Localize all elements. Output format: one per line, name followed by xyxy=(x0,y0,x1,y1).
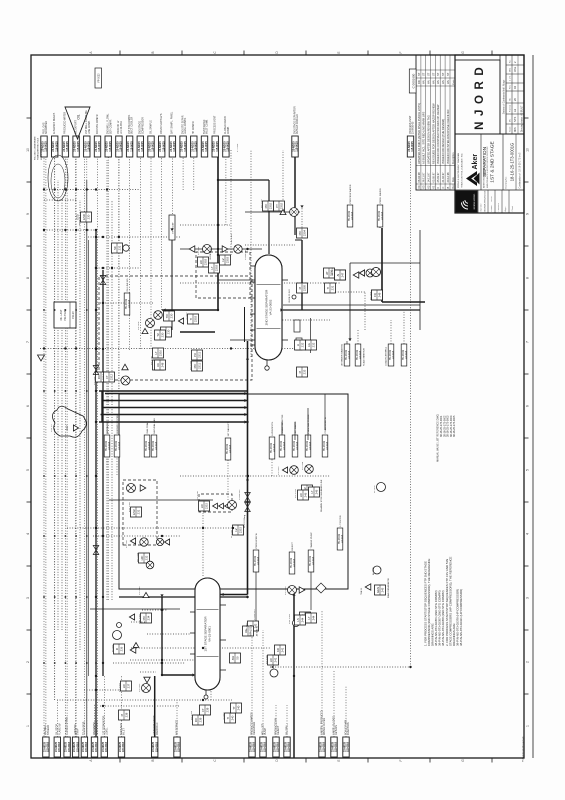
svg-text:10: 10 xyxy=(26,148,30,152)
svg-text:C: C xyxy=(441,187,445,189)
svg-text:ESD 0.1: ESD 0.1 xyxy=(79,216,81,225)
svg-text:115-0018: 115-0018 xyxy=(264,741,267,752)
svg-text:115-0025: 115-0025 xyxy=(152,141,155,152)
svg-text:TT: TT xyxy=(232,706,236,710)
svg-text:115-0018: 115-0018 xyxy=(274,443,276,452)
svg-text:SCALE INHIBITOR: SCALE INHIBITOR xyxy=(281,414,284,433)
svg-text:HV-23049: HV-23049 xyxy=(357,349,359,360)
svg-text:COALESCER W.: COALESCER W. xyxy=(324,416,327,433)
svg-text:GEN: GEN xyxy=(376,587,380,593)
svg-text:SAF. SAMPL. PANEL: SAF. SAMPL. PANEL xyxy=(171,111,174,134)
svg-text:231: 231 xyxy=(137,509,141,514)
svg-text:3: 3 xyxy=(525,597,529,599)
svg-text:HV-23049: HV-23049 xyxy=(291,557,293,568)
svg-text:LIC 2323: LIC 2323 xyxy=(119,682,121,692)
svg-text:TI: TI xyxy=(189,318,193,321)
svg-text:B: B xyxy=(151,51,155,53)
svg-text:PSV 2320: PSV 2320 xyxy=(139,613,141,624)
svg-text:kN: kN xyxy=(510,119,512,122)
svg-text:4: 4 xyxy=(525,533,529,535)
svg-text:ST: ST xyxy=(436,72,440,76)
svg-text:Client:: Client: xyxy=(511,205,514,211)
svg-text:4: 4 xyxy=(26,533,30,535)
svg-text:115-0018: 115-0018 xyxy=(47,741,50,752)
svg-text:LT: LT xyxy=(154,351,158,354)
svg-text:INJECTION: INJECTION xyxy=(347,722,350,735)
svg-text:LS: LS xyxy=(296,618,300,622)
svg-text:ST: ST xyxy=(422,72,426,76)
svg-text:2ND WELL FLOWL.: 2ND WELL FLOWL. xyxy=(108,113,110,134)
svg-text:115-0018: 115-0018 xyxy=(109,441,111,450)
svg-text:2305: 2305 xyxy=(303,284,307,291)
svg-text:SEPARATION: SEPARATION xyxy=(482,146,488,177)
svg-text:XXV 23: XXV 23 xyxy=(51,424,53,432)
svg-text:PIC: PIC xyxy=(193,364,197,369)
svg-text:231: 231 xyxy=(118,245,122,250)
svg-text:LIT FILTER: LIT FILTER xyxy=(340,515,342,527)
svg-text:UPDATED AFTER DESIGN REVIEW T: UPDATED AFTER DESIGN REVIEW TAG xyxy=(427,115,431,164)
svg-text:TEGN: TEGN xyxy=(491,196,493,202)
svg-text:SCALE INHIBITOR: SCALE INHIBITOR xyxy=(363,348,366,366)
svg-text:AI 2330: AI 2330 xyxy=(372,567,375,575)
svg-text:2311: 2311 xyxy=(198,363,202,369)
svg-text:1: 1 xyxy=(525,725,529,727)
svg-text:HV-23049: HV-23049 xyxy=(227,443,229,454)
svg-text:LIC 2315: LIC 2315 xyxy=(197,490,199,500)
svg-text:LV 2315: LV 2315 xyxy=(231,529,233,538)
svg-text:AT: AT xyxy=(325,271,329,275)
svg-text:HV-23049: HV-23049 xyxy=(307,440,309,451)
svg-text:PIC 2311: PIC 2311 xyxy=(190,360,192,370)
svg-text:TI: TI xyxy=(226,717,230,720)
svg-text:ISSUED FOR DESIGN (THE REVIEW: ISSUED FOR DESIGN (THE REVIEW) xyxy=(441,119,445,164)
svg-text:HV-23049: HV-23049 xyxy=(339,533,341,544)
svg-text:MAIN GENERATOR: MAIN GENERATOR xyxy=(387,578,390,598)
svg-text:1ST & 2ND STAGE: 1ST & 2ND STAGE xyxy=(490,141,496,182)
svg-text:FUEL GAS PURGE: FUEL GAS PURGE xyxy=(307,414,310,434)
svg-text:AE MAL 61: AE MAL 61 xyxy=(106,422,109,434)
svg-text:FI: FI xyxy=(115,648,119,651)
svg-text:LEVEL: LEVEL xyxy=(105,727,108,735)
svg-text:AS BUILT INCL. SITE RED-LINE: AS BUILT INCL. SITE RED-LINE MARK UPS xyxy=(422,112,426,164)
svg-text:SUCT. COOLER: SUCT. COOLER xyxy=(132,116,134,134)
svg-text:VA-23-0002: VA-23-0002 xyxy=(269,299,273,315)
svg-text:RE-ISSUED FOR DESIGN AFTER HA: RE-ISSUED FOR DESIGN AFTER HAZOP REVIEW xyxy=(431,103,435,164)
svg-text:2302: 2302 xyxy=(280,202,284,209)
svg-text:SCRUBBER: SCRUBBER xyxy=(46,121,48,134)
svg-text:No.: No. xyxy=(510,59,512,63)
svg-text:FLARE KV: FLARE KV xyxy=(58,723,61,735)
svg-text:115-0018: 115-0018 xyxy=(122,741,125,752)
svg-text:TEST SEPAR.: TEST SEPAR. xyxy=(203,119,206,134)
svg-text:1ST STG COMPR.: 1ST STG COMPR. xyxy=(129,114,131,134)
svg-text:232: 232 xyxy=(145,555,149,560)
svg-text:FP-0023: FP-0023 xyxy=(99,73,101,83)
svg-text:1 of 1: 1 of 1 xyxy=(510,75,512,81)
svg-text:PIC: PIC xyxy=(298,231,302,236)
svg-text:Drawing No.:: Drawing No.: xyxy=(505,175,508,188)
svg-text:HV-23049: HV-23049 xyxy=(146,440,148,451)
svg-text:14.11.97: 14.11.97 xyxy=(427,172,431,182)
svg-text:115-0025: 115-0025 xyxy=(66,141,69,152)
svg-text:115-0018: 115-0018 xyxy=(284,441,286,450)
svg-text:MAL51: MAL51 xyxy=(249,626,253,635)
svg-text:HV-23049: HV-23049 xyxy=(310,555,312,566)
svg-text:240: 240 xyxy=(237,705,241,710)
svg-text:ALTERNAT. INJECT.: ALTERNAT. INJECT. xyxy=(53,112,56,134)
svg-text:PIC: PIC xyxy=(142,616,146,621)
svg-text:HN: HN xyxy=(441,80,445,84)
svg-text:LIC 2310: LIC 2310 xyxy=(151,355,153,365)
svg-text:TI 2325: TI 2325 xyxy=(223,712,225,720)
svg-text:239: 239 xyxy=(206,707,210,712)
svg-text:PI: PI xyxy=(298,286,302,289)
svg-text:FIC 2324: FIC 2324 xyxy=(191,710,193,720)
svg-text:HN: HN xyxy=(446,80,450,84)
svg-text:OUTLET COOLER: OUTLET COOLER xyxy=(297,114,299,134)
svg-text:GAS COAL: GAS COAL xyxy=(146,422,149,434)
svg-text:PIC 2337: PIC 2337 xyxy=(261,198,263,208)
svg-text:115-0018: 115-0018 xyxy=(294,558,296,567)
svg-text:PIG 23: PIG 23 xyxy=(73,311,75,319)
svg-text:115-0018: 115-0018 xyxy=(327,441,329,450)
svg-text:LIC: LIC xyxy=(122,684,126,688)
svg-text:Operator:: Operator: xyxy=(480,203,483,212)
svg-text:115-0018: 115-0018 xyxy=(382,211,384,220)
svg-text:38-P/N-NS-073-02321 (HP COMPR: 38-P/N-NS-073-02321 (HP COMPRESSOR) xyxy=(459,589,463,646)
svg-text:HV-23049: HV-23049 xyxy=(255,555,257,566)
svg-text:LV: LV xyxy=(234,528,238,531)
svg-text:RD: RD xyxy=(417,80,421,84)
svg-text:115-0018: 115-0018 xyxy=(277,741,280,752)
svg-text:2ND STAGE: 2ND STAGE xyxy=(139,121,142,134)
svg-text:HV-23049: HV-23049 xyxy=(403,349,405,360)
svg-text:OIL SAMPLE: OIL SAMPLE xyxy=(149,120,152,134)
svg-text:115-0025: 115-0025 xyxy=(184,141,187,152)
svg-text:115-0018: 115-0018 xyxy=(178,741,181,752)
svg-text:8: 8 xyxy=(525,277,529,279)
svg-text:PROCESS VENT: PROCESS VENT xyxy=(215,115,217,134)
svg-text:FT: FT xyxy=(105,375,109,379)
svg-text:PT: PT xyxy=(275,204,279,208)
svg-text:INLET: INLET xyxy=(123,728,126,735)
svg-text:233: 233 xyxy=(303,369,307,374)
svg-text:HYDROCYCL.: HYDROCYCL. xyxy=(272,421,274,436)
svg-text:115-0018: 115-0018 xyxy=(349,350,351,359)
svg-text:23-0N25-001: 23-0N25-001 xyxy=(41,147,43,160)
svg-text:2302: 2302 xyxy=(269,202,273,209)
svg-text:232: 232 xyxy=(301,342,305,347)
svg-text:PROCESS VENT: PROCESS VENT xyxy=(410,115,412,134)
svg-text:115-0018: 115-0018 xyxy=(335,741,338,752)
svg-text:115-0018: 115-0018 xyxy=(129,299,131,308)
svg-text:FQ 2307: FQ 2307 xyxy=(370,291,372,300)
svg-text:XX: XX xyxy=(156,363,160,367)
svg-text:XV 2317: XV 2317 xyxy=(126,539,128,548)
svg-text:2315: 2315 xyxy=(239,526,243,533)
svg-text:ST: ST xyxy=(417,72,421,76)
svg-text:3: 3 xyxy=(26,597,30,599)
svg-text:2303: 2303 xyxy=(194,315,198,322)
svg-text:115-0025: 115-0025 xyxy=(77,141,80,152)
svg-text:MANIFOLD: MANIFOLD xyxy=(156,722,159,735)
svg-text:115-0025: 115-0025 xyxy=(227,141,230,152)
svg-text:FIC: FIC xyxy=(194,718,198,723)
svg-text:SC: SC xyxy=(113,246,117,250)
svg-text:115-0025: 115-0025 xyxy=(162,141,165,152)
svg-text:ST: ST xyxy=(441,72,445,76)
svg-text:Sh.: Sh. xyxy=(510,97,512,101)
svg-text:115-0025: 115-0025 xyxy=(98,141,101,152)
svg-text:LV1 23-0011: LV1 23-0011 xyxy=(121,120,123,134)
svg-text:OIL LINE 115: OIL LINE 115 xyxy=(127,278,129,292)
svg-text:ST: ST xyxy=(427,72,431,76)
svg-text:2ND STAGE SEPARATOR: 2ND STAGE SEPARATOR xyxy=(293,106,296,134)
svg-text:06.04.98: 06.04.98 xyxy=(417,172,421,183)
svg-text:6: 6 xyxy=(26,405,30,407)
svg-text:230: 230 xyxy=(87,214,91,219)
svg-text:LV1 X.X Barg: LV1 X.X Barg xyxy=(243,514,246,528)
svg-text:2312: 2312 xyxy=(110,373,114,380)
svg-text:XXV: XXV xyxy=(65,425,69,430)
svg-text:PSV 2303: PSV 2303 xyxy=(231,233,233,244)
svg-text:23-0N30-05: 23-0N30-05 xyxy=(413,121,415,134)
svg-text:LV: LV xyxy=(221,258,225,261)
svg-text:115-0025: 115-0025 xyxy=(141,141,144,152)
svg-text:HP COMPR.: HP COMPR. xyxy=(193,120,195,134)
svg-text:OSL: OSL xyxy=(513,66,517,72)
svg-text:PIC: PIC xyxy=(264,204,268,209)
svg-text:ST: ST xyxy=(431,72,435,76)
svg-text:RETURN: RETURN xyxy=(335,725,338,735)
svg-text:FUEL GAS: FUEL GAS xyxy=(42,122,45,134)
svg-text:OPEN PLANT EV'S: OPEN PLANT EV'S xyxy=(160,113,163,134)
svg-text:REJECT: REJECT xyxy=(292,541,294,550)
svg-text:115-0025: 115-0025 xyxy=(296,141,299,152)
svg-text:TRAP: TRAP xyxy=(77,728,80,735)
svg-text:HV-23049: HV-23049 xyxy=(153,440,155,451)
svg-text:HV 2302: HV 2302 xyxy=(138,321,140,330)
svg-text:234: 234 xyxy=(147,615,151,620)
svg-text:115-0018: 115-0018 xyxy=(297,441,299,450)
svg-text:WATER FILTER: WATER FILTER xyxy=(323,718,326,735)
svg-text:26.11.97: 26.11.97 xyxy=(422,172,426,182)
svg-text:115-0025: 115-0025 xyxy=(88,141,91,152)
svg-text:2303: 2303 xyxy=(215,264,219,271)
svg-text:Aker: Aker xyxy=(472,154,479,170)
svg-text:238: 238 xyxy=(125,712,129,717)
svg-text:9: 9 xyxy=(525,213,529,215)
svg-text:HIC: HIC xyxy=(140,556,144,561)
svg-text:244: 244 xyxy=(301,617,305,622)
svg-text:A1: A1 xyxy=(513,108,517,112)
svg-text:2: 2 xyxy=(525,661,529,663)
svg-text:CLOSED DRAIN: CLOSED DRAIN xyxy=(65,717,68,735)
svg-text:E: E xyxy=(337,759,341,761)
svg-text:HN: HN xyxy=(422,80,426,84)
svg-text:E: E xyxy=(337,51,341,53)
svg-text:HV-23049: HV-23049 xyxy=(390,349,392,360)
svg-text:115-0018: 115-0018 xyxy=(85,741,88,752)
svg-text:PRODUCED WATER: PRODUCED WATER xyxy=(64,112,67,134)
svg-text:LIC: LIC xyxy=(269,658,273,662)
svg-text:XV 2322: XV 2322 xyxy=(139,683,141,692)
svg-text:Plotted 06.04.98 tegn/awb: Plotted 06.04.98 tegn/awb xyxy=(521,736,524,762)
svg-text:ST: ST xyxy=(446,72,450,76)
svg-text:236: 236 xyxy=(120,646,124,651)
svg-text:LIC: LIC xyxy=(200,504,204,508)
svg-text:246: 246 xyxy=(304,492,308,497)
svg-text:MIS: MIS xyxy=(513,127,517,132)
svg-text:2ND STG SEPAR.: 2ND STG SEPAR. xyxy=(181,115,184,134)
svg-text:Date: Date xyxy=(452,176,455,182)
svg-text:115-0018: 115-0018 xyxy=(76,741,79,752)
svg-text:COMB.: COMB. xyxy=(228,126,230,134)
svg-text:LIC: LIC xyxy=(199,260,203,264)
svg-text:115-0018: 115-0018 xyxy=(323,741,326,752)
svg-text:7: 7 xyxy=(26,341,30,343)
svg-text:PI: PI xyxy=(298,370,302,373)
svg-text:230: 230 xyxy=(161,332,165,337)
svg-text:NTS: NTS xyxy=(513,117,517,122)
svg-text:Made: Made xyxy=(453,79,455,85)
svg-text:115-0018: 115-0018 xyxy=(342,534,344,543)
svg-text:10: 10 xyxy=(525,148,529,152)
svg-text:PSV 2328: PSV 2328 xyxy=(289,613,291,624)
svg-text:COMPRESSOR: COMPRESSOR xyxy=(142,117,144,134)
svg-text:XV 2304: XV 2304 xyxy=(94,376,96,385)
svg-text:LINE COMB.: LINE COMB. xyxy=(89,120,91,134)
svg-text:230: 230 xyxy=(167,329,171,334)
svg-text:ISSUED FOR INTER-DISCIPLINE CH: ISSUED FOR INTER-DISCIPLINE CHECK IDC xyxy=(446,109,450,164)
svg-text:INLET COMB.: INLET COMB. xyxy=(207,119,209,134)
svg-text:6: 6 xyxy=(525,405,529,407)
svg-text:UPDATED AS BUILT (AFTER FINAL: UPDATED AS BUILT (AFTER FINAL PUNCH LIST… xyxy=(417,103,421,164)
svg-text:OIL LAST: OIL LAST xyxy=(60,309,63,320)
svg-text:AI: AI xyxy=(336,273,340,276)
svg-text:PV 2301: PV 2301 xyxy=(198,246,200,255)
svg-text:XV 2329: XV 2329 xyxy=(285,586,287,595)
svg-text:HV-23049: HV-23049 xyxy=(346,349,348,360)
svg-text:115-0025: 115-0025 xyxy=(195,141,198,152)
svg-text:N J O R D: N J O R D xyxy=(474,66,486,130)
svg-text:2303: 2303 xyxy=(204,258,208,265)
svg-text:115-0025: 115-0025 xyxy=(109,141,112,152)
svg-text:XV 2333: XV 2333 xyxy=(278,466,280,475)
svg-text:Scale: Scale xyxy=(510,126,512,132)
svg-text:20.12.96: 20.12.96 xyxy=(446,172,450,183)
svg-text:STREAM: STREAM xyxy=(47,725,50,735)
svg-text:HV-23049: HV-23049 xyxy=(281,440,283,451)
svg-text:115-0018: 115-0018 xyxy=(258,556,260,565)
svg-text:OIL: OIL xyxy=(76,114,80,119)
svg-text:115-0025: 115-0025 xyxy=(173,141,176,152)
svg-text:TRANSF. PUMP: TRANSF. PUMP xyxy=(310,532,313,549)
svg-text:HN: HN xyxy=(427,80,431,84)
svg-text:50: 50 xyxy=(236,656,240,660)
svg-text:ISSUED FOR CONSTRUCTION KDN: ISSUED FOR CONSTRUCTION KDN OP. REVIEW xyxy=(436,104,440,164)
svg-text:241: 241 xyxy=(274,657,278,662)
svg-text:HV-23049: HV-23049 xyxy=(349,210,351,221)
svg-text:246: 246 xyxy=(315,489,319,494)
svg-text:2304: 2304 xyxy=(303,229,307,236)
svg-text:F: F xyxy=(399,51,403,53)
svg-text:115-0025: 115-0025 xyxy=(130,141,133,152)
svg-text:LG: LG xyxy=(307,343,311,347)
svg-text:PI 2327: PI 2327 xyxy=(246,622,248,630)
svg-text:244: 244 xyxy=(312,615,316,620)
svg-text:HV-23049: HV-23049 xyxy=(126,298,128,309)
svg-text:115-0018: 115-0018 xyxy=(105,741,108,752)
svg-text:25.03.97: 25.03.97 xyxy=(436,172,440,183)
svg-text:241: 241 xyxy=(281,647,285,652)
svg-text:ESD: ESD xyxy=(82,214,86,220)
svg-text:7: 7 xyxy=(525,341,529,343)
svg-text:HV-23049: HV-23049 xyxy=(324,440,326,451)
svg-text:FUL GAS CONDENSATE: FUL GAS CONDENSATE xyxy=(34,136,37,160)
svg-text:PT 2336: PT 2336 xyxy=(237,143,239,152)
svg-text:115-0025: 115-0025 xyxy=(216,141,219,152)
svg-text:JB-PA-23-05: JB-PA-23-05 xyxy=(209,247,212,260)
svg-text:JB-PA-23-043: JB-PA-23-043 xyxy=(288,289,291,303)
svg-text:23-PB-011: 23-PB-011 xyxy=(245,249,247,260)
svg-text:LIC 2326: LIC 2326 xyxy=(266,654,268,664)
svg-text:PROC.W. LV: PROC.W. LV xyxy=(118,120,120,134)
svg-text:REJECT: REJECT xyxy=(277,725,280,735)
svg-text:HV-23049: HV-23049 xyxy=(379,210,381,221)
svg-text:HN: HN xyxy=(436,80,440,84)
svg-text:245: 245 xyxy=(381,587,385,592)
svg-text:Description: Description xyxy=(452,152,455,164)
svg-text:115-0018: 115-0018 xyxy=(156,441,158,450)
svg-text:247: 247 xyxy=(341,272,345,277)
svg-text:TV: TV xyxy=(156,333,160,337)
svg-text:PIPING & INSTRUMENT DIAGRAM: PIPING & INSTRUMENT DIAGRAM xyxy=(457,153,460,188)
svg-text:115-0018: 115-0018 xyxy=(253,741,256,752)
svg-text:JET WATER: JET WATER xyxy=(294,421,297,434)
svg-text:239: 239 xyxy=(199,717,203,722)
svg-text:115-0025: 115-0025 xyxy=(205,141,208,152)
svg-text:230: 230 xyxy=(170,313,174,318)
svg-text:115-0018: 115-0018 xyxy=(406,350,408,359)
svg-text:Continuation of: 18-16-25-1T3: Continuation of: 18-16-25-1T3 lev.5 xyxy=(519,152,522,189)
svg-text:COALESCER WELL: COALESCER WELL xyxy=(385,346,388,366)
svg-text:115-0018: 115-0018 xyxy=(119,441,121,450)
svg-text:3B-A/B/N STGE SNUBBER LINE: 3B-A/B/N STGE SNUBBER LINE xyxy=(320,479,323,512)
svg-text:HV-23049: HV-23049 xyxy=(106,440,108,451)
svg-text:TD-25-0N30: TD-25-0N30 xyxy=(83,721,86,735)
svg-text:Drawing status: AS BUILT: Drawing status: AS BUILT xyxy=(521,105,524,132)
svg-text:ESV 2316: ESV 2316 xyxy=(129,501,131,512)
svg-text:OIL EXPORT: OIL EXPORT xyxy=(75,120,77,134)
svg-text:C 0001600: C 0001600 xyxy=(411,73,415,88)
svg-text:3RD STG COMPR.: 3RD STG COMPR. xyxy=(97,114,99,134)
svg-text:VA-23-0001: VA-23-0001 xyxy=(208,626,212,642)
svg-text:F: F xyxy=(399,759,403,761)
svg-text:2303: 2303 xyxy=(226,256,230,263)
svg-text:B: B xyxy=(446,187,450,189)
svg-text:AIR SERVICE: AIR SERVICE xyxy=(175,719,178,735)
svg-text:LI: LI xyxy=(296,344,300,347)
svg-text:115-0018: 115-0018 xyxy=(393,350,395,359)
svg-text:B: B xyxy=(151,759,155,761)
svg-text:9: 9 xyxy=(26,213,30,215)
svg-text:115-0018: 115-0018 xyxy=(230,444,232,453)
svg-text:5: 5 xyxy=(525,469,529,471)
svg-text:115-0018: 115-0018 xyxy=(58,741,61,752)
svg-text:XV 2319: XV 2319 xyxy=(139,586,141,595)
svg-text:LT: LT xyxy=(310,490,314,493)
